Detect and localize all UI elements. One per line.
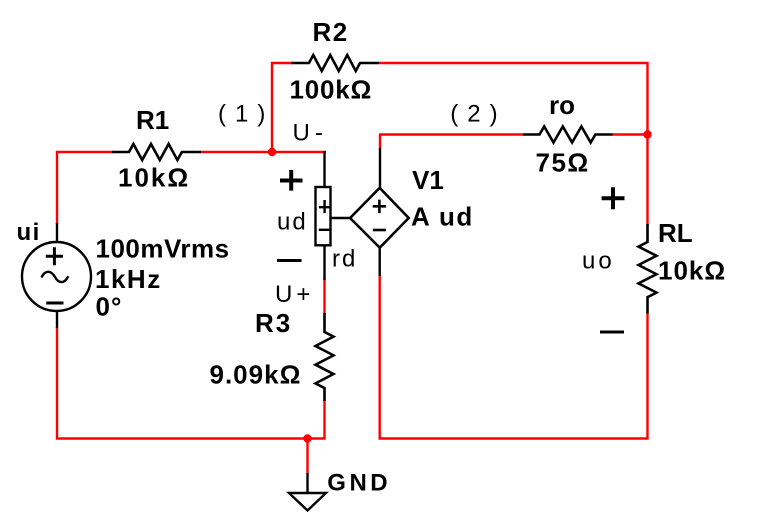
wire: node 1 up and across to R2 left (272, 63, 292, 152)
svg-text:R3: R3 (255, 308, 292, 338)
wire: node 2 row from diamond branch to ro left (379, 133, 524, 135)
dependent source V1 (diamond) (331, 148, 409, 276)
svg-text:ui: ui (17, 219, 41, 246)
wire: R2 right to top-right corner down to node 2 junction (379, 63, 648, 135)
wire: R3 top red segment (323, 279, 325, 314)
wire: junction down to RL top (646, 135, 648, 226)
wire: RL bottom to bottom-right corner to diamond bottom (380, 275, 648, 439)
junction node 2 (ro-RL) (643, 130, 651, 138)
svg-text:R1: R1 (136, 105, 169, 135)
wire: R1 right to node 1 to U- corner (200, 151, 326, 153)
svg-text:V1: V1 (412, 165, 444, 195)
svg-text:U-: U- (293, 120, 328, 147)
resistor ro (523, 127, 613, 143)
wire: ro right to junction (612, 133, 648, 135)
svg-text:1kHz: 1kHz (95, 264, 162, 294)
svg-text:A ud: A ud (411, 202, 474, 232)
svg-text:ud: ud (277, 209, 308, 236)
polarity - (rd input) (277, 259, 302, 262)
AC source ui (22, 223, 91, 328)
resistor R1 (112, 144, 201, 160)
svg-text:U+: U+ (275, 281, 314, 308)
wire: ground tap down (306, 439, 308, 475)
svg-text:(2): (2) (450, 101, 506, 128)
svg-text:0°: 0° (96, 292, 123, 322)
polarity + (rd input) (280, 170, 303, 191)
svg-text:GND: GND (327, 470, 391, 497)
svg-text:(1): (1) (218, 101, 274, 128)
svg-text:uo: uo (582, 248, 615, 275)
polarity + (uo) (602, 187, 625, 209)
resistor RL (639, 224, 657, 314)
svg-text:rd: rd (332, 246, 357, 273)
svg-text:100kΩ: 100kΩ (290, 75, 373, 105)
svg-text:10kΩ: 10kΩ (118, 163, 190, 193)
resistor rd (op-amp input resistance box) (316, 151, 331, 280)
svg-text:75Ω: 75Ω (536, 148, 590, 178)
svg-text:100mVrms: 100mVrms (96, 234, 230, 264)
resistor R3 (316, 313, 334, 401)
svg-text:ro: ro (549, 90, 575, 120)
wire: source bottom along bottom-left row to R3 bottom (57, 327, 325, 439)
wire: source top to R1 left (57, 152, 113, 224)
svg-text:R2: R2 (313, 17, 349, 47)
resistor R2 (291, 55, 379, 71)
svg-text:10kΩ: 10kΩ (658, 256, 726, 286)
junction node 1 (268, 148, 276, 156)
ground (289, 473, 326, 511)
svg-text:RL: RL (658, 218, 693, 248)
junction ground tap (303, 434, 311, 442)
wire: diamond top red drop (379, 135, 381, 150)
polarity - (uo) (600, 331, 624, 334)
svg-text:9.09kΩ: 9.09kΩ (210, 360, 302, 390)
